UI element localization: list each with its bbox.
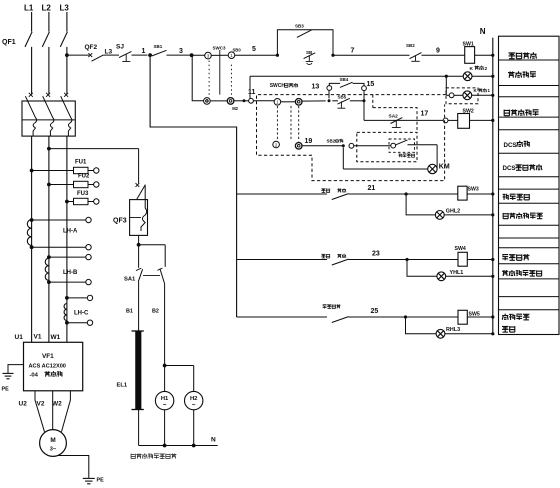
junction LH-A a — [30, 218, 34, 222]
QF3 arm — [137, 185, 146, 200]
svg-text:23: 23 — [372, 251, 380, 258]
switch SB1 arm — [152, 50, 167, 56]
wire to lamp EL1 — [138, 282, 140, 331]
switch SB4 arm — [340, 82, 353, 87]
svg-text:KM: KM — [439, 163, 450, 170]
svg-text:PE: PE — [97, 478, 105, 484]
switch SB3 arm — [297, 30, 312, 38]
table text converter fault — [502, 254, 529, 260]
QF1 pole 1 contact x — [29, 93, 33, 97]
svg-text:SB0: SB0 — [233, 48, 242, 53]
dashed box lamp HL2 — [446, 88, 478, 104]
terminal plug upper b — [228, 52, 235, 59]
wire SW1 to N bus — [475, 54, 493, 56]
relay SW4 — [458, 252, 467, 266]
breaker QF1 pole 1 arm — [25, 32, 32, 47]
svg-text:U2: U2 — [19, 401, 28, 408]
terminal plug lower b — [227, 98, 234, 105]
svg-text:SWCH: SWCH — [270, 83, 286, 89]
lamp YHL1 — [437, 272, 446, 281]
svg-text:SW1: SW1 — [463, 42, 474, 48]
lamp RHL3 — [436, 329, 445, 338]
QF1 pole 3 trip element — [61, 96, 72, 136]
riser to lamp box — [445, 76, 447, 95]
connector 13 — [327, 86, 332, 91]
junction node 1 — [148, 53, 152, 57]
breaker QF2 contact x — [88, 53, 92, 57]
wire between upper terminals — [211, 54, 228, 56]
svg-text:15: 15 — [367, 81, 375, 88]
junction below QF3 — [137, 243, 141, 247]
terminal FU2 — [94, 182, 99, 187]
svg-text:SB1: SB1 — [154, 44, 163, 49]
wire LH-A secondary b — [32, 246, 86, 248]
svg-text:17: 17 — [421, 110, 429, 117]
svg-text:W2: W2 — [52, 401, 62, 408]
svg-text:V1: V1 — [34, 334, 42, 341]
junction LH-C b — [65, 321, 69, 325]
relay SW3 — [458, 186, 467, 200]
label contact 25 — [323, 304, 341, 308]
wire lamp HL2 to N bus — [472, 94, 493, 96]
wire relay SW3 to N bus — [467, 193, 493, 195]
wire lamp YHL1 to N bus — [446, 275, 493, 277]
svg-text:QF1: QF1 — [2, 39, 16, 46]
junction FU1 tap — [30, 169, 34, 173]
wire rung 23 left — [237, 259, 327, 261]
stub to connector 13 — [328, 90, 330, 98]
svg-text:YHL1: YHL1 — [450, 270, 464, 276]
wire node5 to button SB2t — [333, 54, 410, 56]
wire LH-A secondary a — [32, 219, 86, 221]
limit switch arm — [396, 140, 408, 145]
wire KM return — [343, 168, 427, 170]
wire to QF3 — [49, 148, 139, 150]
ground PE right — [83, 478, 95, 483]
dashed link mid — [290, 106, 292, 141]
dashed link terminal 8 — [298, 106, 300, 142]
QF1 pole 1 trip element — [25, 96, 36, 136]
junction N bus rung 17 — [491, 119, 494, 122]
riser to KM — [436, 145, 438, 169]
connector 15 — [362, 86, 367, 91]
wire left branch down — [138, 245, 140, 268]
time switch SJ — [119, 51, 132, 57]
table text converter start — [509, 52, 537, 59]
breaker QF2 arm — [92, 55, 104, 61]
svg-text:ACS AC12X00: ACS AC12X00 — [29, 363, 66, 369]
wire relay SW4 to N bus — [467, 259, 493, 261]
terminal FU3 — [94, 199, 99, 204]
wire terminal 8 to junction 13 — [302, 100, 326, 102]
wire to FU3 — [67, 201, 74, 203]
wire feed to lower terminal row — [192, 55, 203, 101]
QF1 box crossbar — [22, 119, 75, 121]
connector limit switch — [391, 143, 396, 148]
svg-text:-04: -04 — [30, 373, 39, 379]
lamp HL1 converter indicator — [463, 72, 472, 81]
wire LH-B secondary a — [49, 256, 86, 258]
breaker QF1 pole 3 arm — [60, 32, 67, 47]
wire down to H2 — [193, 366, 195, 392]
ground PE left — [3, 373, 14, 378]
table text converter standby — [502, 314, 529, 320]
wire FU2 out — [88, 184, 94, 186]
wire to limit switch — [354, 145, 391, 147]
wire terminal 1 to 8 — [281, 101, 296, 103]
junction FU2 tap — [47, 183, 51, 187]
svg-text:9: 9 — [436, 47, 440, 54]
wire down to QF3 — [138, 149, 140, 184]
cable dotted link b — [230, 65, 232, 95]
svg-text:FU3: FU3 — [77, 191, 89, 197]
wire V2 to motor — [52, 391, 54, 430]
wire right branch down — [164, 245, 166, 267]
wire SJ to node 1 — [132, 54, 148, 56]
signal name table — [499, 36, 560, 334]
wire rung 19 — [302, 145, 343, 147]
svg-text:L3: L3 — [105, 49, 113, 56]
svg-text:SB3: SB3 — [295, 23, 304, 28]
wire rung 25 to relay — [349, 316, 459, 318]
wire bypass upper b — [353, 83, 364, 85]
svg-text:SB2: SB2 — [327, 139, 336, 144]
svg-text:M: M — [50, 437, 55, 444]
QF1 pole 3 contact x — [64, 93, 68, 97]
contactor coil KM — [428, 164, 437, 173]
svg-text:5: 5 — [252, 46, 256, 53]
fuse FU3 — [74, 198, 89, 204]
wire QF2 to SJ — [103, 54, 119, 56]
wire lamp GHL2 to N bus — [444, 214, 492, 216]
connector before SW2 — [443, 118, 448, 123]
wire down to H1 — [164, 366, 166, 392]
wire branch to H2 — [165, 365, 194, 367]
connector lamp HL2 — [449, 93, 454, 98]
svg-text:N: N — [480, 27, 486, 36]
junction before 11 — [243, 99, 246, 102]
fuse FU1 — [74, 167, 89, 173]
current transformer LH-C coil — [64, 304, 67, 310]
wire H1 to N — [164, 410, 166, 446]
wire lamp RHL3 to N bus — [445, 333, 493, 335]
wire rung 17 — [364, 119, 443, 121]
svg-text:SW4: SW4 — [455, 246, 466, 252]
wire lower terminals — [210, 100, 227, 102]
svg-text:19: 19 — [305, 138, 313, 145]
dashed box remote button — [357, 132, 417, 161]
wire lamp HL1 to N bus — [472, 75, 493, 77]
svg-text:SW2: SW2 — [463, 109, 474, 115]
wire to FU1 — [32, 170, 74, 172]
wire phase 1 down to inverter — [31, 136, 33, 342]
junction lamp branch — [445, 75, 448, 78]
svg-text:7: 7 — [351, 47, 355, 54]
svg-text:GHL2: GHL2 — [446, 208, 460, 214]
svg-text:LH-C: LH-C — [74, 311, 89, 317]
wire L3 incoming — [66, 12, 68, 32]
label contact 21 b — [337, 188, 346, 192]
motor M — [40, 430, 67, 457]
svg-text:1: 1 — [142, 48, 146, 55]
wire into lamp box — [446, 94, 449, 96]
lamp GHL2 — [435, 211, 444, 220]
contact on rung 21 — [332, 194, 349, 200]
junction rung 21 lamp branch — [405, 192, 408, 195]
svg-text:SB5: SB5 — [338, 95, 347, 100]
table text console start — [504, 109, 538, 115]
svg-text:SA1: SA1 — [124, 276, 136, 282]
junction QF3 tap — [47, 147, 51, 151]
wire LH-C secondary a — [67, 297, 87, 299]
wire L3 to QF1 — [66, 47, 68, 95]
wire to lamp RHL3 — [406, 317, 436, 334]
wire limit switch out — [408, 144, 438, 146]
wire L2 to QF1 — [48, 47, 50, 95]
junction LH-B a — [47, 255, 51, 259]
svg-text:SJ: SJ — [116, 43, 124, 50]
svg-text:LH-A: LH-A — [63, 229, 78, 235]
label contact 23 a — [321, 254, 329, 258]
label contact 21 a — [321, 189, 329, 193]
svg-text:13: 13 — [312, 84, 320, 91]
junction rung 25 lamp branch — [404, 315, 407, 318]
terminal LH-A b — [86, 245, 91, 250]
svg-text:RHL3: RHL3 — [446, 327, 460, 333]
wire connector to lamp — [454, 94, 463, 96]
neutral wire lighting — [139, 445, 218, 447]
junction N bus row A — [491, 75, 494, 78]
wire to lamp YHL1 — [407, 260, 437, 277]
wire FU1 out — [88, 170, 94, 172]
wire SB1 to node 3 — [167, 54, 192, 56]
junction N bus lamp HL2 — [491, 94, 494, 97]
QF1 pole 2 trip element — [43, 96, 54, 136]
terminal plug lower b inner — [229, 100, 232, 103]
separator line between plugs — [219, 50, 221, 95]
dashed control station outline — [257, 95, 447, 181]
wire to SW1 — [422, 54, 465, 56]
wire FU3 out — [88, 201, 94, 203]
svg-text:B1: B1 — [126, 309, 133, 315]
svg-text:L2: L2 — [42, 4, 52, 13]
control bus left — [150, 55, 237, 317]
riser node11 to indicator row — [249, 76, 251, 98]
connector rung 19 — [349, 143, 354, 148]
wire EL1 to N — [138, 410, 140, 446]
svg-text:11: 11 — [248, 89, 256, 96]
wire phase 3 down to inverter — [66, 136, 68, 342]
circuit breaker QF3 box — [130, 200, 148, 236]
junction H1 H2 branch — [163, 364, 167, 368]
contact on rung 23 — [332, 259, 349, 265]
wire B2 down — [164, 283, 166, 365]
circuit breaker QF1 box — [22, 101, 75, 136]
wire relay SW5 to N bus — [467, 316, 493, 318]
table text converter run indicate — [503, 213, 543, 219]
wire bypass upper a — [329, 83, 340, 85]
svg-text:25: 25 — [371, 308, 379, 315]
contact on rung 25 — [332, 317, 349, 323]
wire to lamp GHL2 — [406, 194, 435, 215]
wire U2 to motor — [35, 391, 45, 432]
current transformer LH-A coil — [27, 220, 31, 229]
wire connector to SW2 — [448, 119, 458, 121]
SA1 linkage — [143, 274, 160, 276]
relay SW2 — [458, 114, 470, 129]
junction bypass right — [331, 54, 334, 57]
svg-text:FU1: FU1 — [75, 159, 87, 165]
terminal plug lower a inner — [206, 100, 209, 103]
svg-text:3~: 3~ — [50, 447, 57, 453]
dashed box limit switch — [389, 139, 415, 152]
wire QF3 out — [138, 235, 140, 244]
wire phase 2 down to inverter — [48, 136, 50, 342]
svg-text:FU2: FU2 — [78, 174, 90, 180]
svg-text:VF1: VF1 — [42, 353, 54, 360]
terminal SWCH 2 — [273, 141, 280, 148]
junction rung 23 lamp branch — [405, 258, 408, 261]
lamp HL2 bypass indicator — [463, 91, 472, 100]
signal lamp H2 — [185, 391, 203, 409]
dashed SA2 box stub — [372, 95, 374, 108]
svg-text:M2: M2 — [232, 106, 238, 111]
junction FU3 tap — [65, 200, 69, 204]
svg-text:SW3: SW3 — [468, 186, 479, 192]
terminal LH-C a — [87, 295, 92, 300]
wire bypass SB3 — [277, 30, 333, 56]
junction node 3 — [190, 53, 194, 57]
wire 11 to SWCH terminal 1 — [253, 100, 274, 102]
riser KM return — [342, 148, 344, 170]
caption control cabinet lighting signal — [131, 453, 176, 458]
wire L1 to QF1 — [31, 47, 33, 95]
svg-text:SWC3: SWC3 — [213, 46, 226, 51]
junction below 13 — [328, 99, 331, 102]
wire rung 25 left — [237, 316, 327, 318]
wire rung 21 left — [237, 193, 327, 195]
wire branch right — [139, 244, 166, 246]
lighting lamp EL1 (bar) — [132, 330, 144, 332]
table text converter fault indicate — [502, 270, 542, 276]
wire to node5 region — [235, 54, 278, 56]
junction bypass left — [276, 54, 279, 57]
svg-text:~: ~ — [192, 402, 196, 409]
wire W2 to motor — [62, 391, 71, 432]
svg-text:QF2: QF2 — [85, 44, 98, 51]
table text converter run — [503, 194, 530, 200]
table text indicate — [502, 326, 515, 332]
QF3 trip element — [141, 186, 147, 232]
dashed SA2 box — [373, 108, 417, 132]
svg-text:~: ~ — [163, 402, 167, 409]
svg-text:LH-B: LH-B — [63, 270, 78, 276]
svg-text:SB4: SB4 — [340, 77, 349, 82]
svg-text:U1: U1 — [15, 334, 24, 341]
svg-text:V2: V2 — [37, 401, 45, 408]
wire to FU2 — [49, 184, 74, 186]
terminal LH-C b — [87, 320, 92, 325]
dashed link terminal 1 — [276, 106, 278, 141]
svg-text:3: 3 — [179, 48, 183, 55]
terminal LH-B b — [86, 279, 91, 284]
svg-text:B2: B2 — [152, 309, 159, 315]
wire to connector 11 — [234, 100, 249, 102]
terminal plug lower a — [204, 98, 211, 105]
wire H2 to N — [193, 410, 195, 446]
svg-text:DCS: DCS — [504, 142, 517, 149]
wire LH-B secondary b — [49, 281, 86, 283]
svg-text:DCS: DCS — [503, 165, 516, 172]
relay SW1 — [465, 47, 475, 64]
svg-text:W1: W1 — [51, 334, 61, 341]
junction LH-C a — [65, 296, 69, 300]
junction LH-A b — [30, 245, 34, 249]
junction rung19 riser — [342, 144, 345, 147]
wire L1 incoming — [31, 12, 33, 32]
wire L3 to QF2 — [67, 54, 89, 56]
svg-text:L3: L3 — [60, 4, 70, 13]
connector 11 — [249, 98, 254, 103]
junction LH-B b — [47, 280, 51, 284]
terminal SWCH 9 — [295, 143, 302, 150]
terminal SWCH 1 — [274, 99, 281, 106]
fuse FU2 — [74, 181, 89, 187]
svg-text:K: K — [470, 66, 474, 72]
wire to SB5 — [332, 100, 338, 102]
wire L2 incoming — [48, 12, 50, 32]
terminal LH-A a — [86, 217, 91, 222]
wire VF1 to PE ground — [8, 365, 24, 373]
N bus — [492, 38, 494, 334]
terminal 8 stub — [298, 99, 300, 102]
wire rung 21 to relay — [349, 193, 458, 195]
wire SB5 to 15 junction — [350, 100, 364, 102]
terminal SWCH 8 — [295, 99, 302, 106]
wire motor to PE ground — [58, 456, 89, 478]
svg-text:21: 21 — [368, 185, 376, 192]
relay SW5 — [458, 310, 467, 324]
svg-text:2: 2 — [485, 66, 488, 72]
current transformer LH-B coil — [45, 258, 49, 265]
signal lamp H1 — [155, 391, 173, 409]
svg-text:L1: L1 — [24, 4, 34, 13]
riser 15 down to rung 17 — [363, 91, 365, 121]
junction N bus main row — [491, 54, 494, 57]
label limit switch cjk — [399, 154, 415, 158]
svg-text:SB2: SB2 — [406, 43, 415, 48]
svg-text:QF3: QF3 — [113, 217, 127, 224]
label contact 23 b — [337, 254, 346, 258]
terminal FU1 — [94, 168, 99, 173]
QF1 pole 2 contact x — [46, 93, 50, 97]
junction below 15 — [363, 99, 366, 102]
table text interlock indicate — [508, 71, 536, 77]
terminal plug 3 upper a — [205, 52, 212, 59]
stop button SB5 — [338, 98, 350, 104]
wire node3 to terminal — [192, 54, 205, 56]
breaker QF1 pole 2 arm — [42, 32, 49, 47]
wire SW2 to N bus — [470, 119, 493, 121]
wire indicator row to lamp KHL1 — [250, 75, 463, 77]
svg-text:N: N — [211, 437, 216, 444]
junction main line tap on L3 — [65, 53, 69, 57]
wire rung 23 to relay — [349, 259, 459, 261]
svg-text:PE: PE — [2, 387, 10, 393]
svg-text:EL1: EL1 — [117, 382, 128, 388]
inverter VF1 box — [24, 342, 83, 391]
svg-text:SA2: SA2 — [389, 113, 399, 119]
